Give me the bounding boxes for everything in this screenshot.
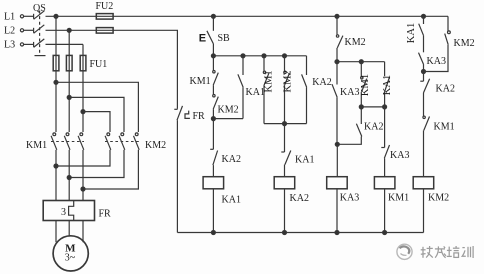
wire drop phase B: [68, 30, 70, 55]
contact KM1 NC right: [423, 116, 430, 177]
contact KA2 NO parallel: [302, 56, 307, 124]
wire KM1 coil to rail: [384, 189, 386, 233]
junction crossover A: [54, 80, 58, 84]
contact KM2 NO mid: [336, 16, 343, 61]
svg-text:KM1: KM1: [26, 140, 47, 151]
contact KA2 NO before KA3 coil: [337, 107, 362, 144]
contact KA1 NC before KA2 coil: [281, 124, 291, 177]
svg-text:KA1: KA1: [382, 75, 393, 95]
svg-text:KM2: KM2: [345, 37, 366, 48]
coil KM2: [413, 177, 434, 189]
wire phase C below FU1: [82, 71, 84, 132]
wire KM2 pole3 merge: [83, 150, 138, 189]
svg-text:KM2: KM2: [454, 38, 475, 49]
char pei: [448, 247, 450, 256]
terminal L2: [20, 29, 23, 32]
wire KM2 pole2 merge: [69, 150, 124, 178]
svg-text:KA3: KA3: [390, 150, 409, 161]
switch QS linkage dashed: [39, 11, 41, 56]
junction merge C: [81, 187, 85, 191]
char cheng: [435, 248, 445, 250]
wire KM2 pole1 merge: [56, 150, 110, 166]
coil KA2: [274, 177, 295, 189]
coil KA1: [203, 177, 224, 189]
svg-text:FU1: FU1: [90, 59, 108, 70]
svg-text:FR: FR: [193, 111, 206, 122]
contact KM2 NO parallel: [284, 56, 290, 124]
svg-text:KA3: KA3: [340, 192, 359, 203]
contact FR NC: [174, 106, 182, 233]
coil KM1: [374, 177, 395, 189]
junction rail KM1: [383, 231, 387, 235]
wire L1 to QS: [24, 15, 34, 17]
switch QS pole 1: [34, 11, 45, 19]
fuse FU1c: [80, 55, 86, 70]
wire crossover B to KM2 pole2: [69, 97, 124, 132]
svg-text:KA1: KA1: [222, 194, 241, 205]
svg-text:KA1: KA1: [406, 23, 417, 43]
watermark logo: [397, 244, 412, 259]
contactor KM1 pole3: [78, 133, 84, 150]
char xun: [462, 247, 464, 249]
wire drop phase C: [82, 44, 84, 55]
contact KA3 NO right: [419, 53, 424, 82]
junction right merge: [422, 70, 426, 74]
junction L1 drop: [54, 14, 58, 18]
contact KM2 NO right parallel: [424, 16, 451, 71]
wire L3 to QS: [24, 43, 34, 45]
junction mid node: [335, 60, 339, 64]
junction KA2 coil branch: [283, 122, 287, 126]
fuse FU1b: [66, 55, 72, 70]
svg-text:KM1: KM1: [434, 122, 455, 133]
junction main KA1 merge: [211, 117, 215, 121]
svg-text:FU2: FU2: [96, 1, 114, 12]
fuse FU2a: [96, 14, 113, 20]
char ji: [422, 247, 424, 258]
wire KM1 pole2 to FR: [68, 150, 70, 201]
contact KM1 NO main branch: [213, 56, 219, 94]
wire L3 after QS: [46, 43, 84, 45]
svg-text:KM1: KM1: [264, 70, 275, 92]
svg-text:L3: L3: [4, 40, 15, 51]
wire KM1 pole1 to FR: [55, 150, 57, 201]
wire L2 after QS: [46, 29, 97, 31]
svg-text:KM2: KM2: [218, 105, 239, 116]
svg-text:KA2: KA2: [364, 121, 383, 132]
contactor KM2 pole1: [105, 133, 111, 150]
fuse FU2b: [96, 28, 113, 33]
fuse FU1a: [53, 55, 59, 70]
svg-text:KM1: KM1: [360, 74, 371, 96]
svg-text:L1: L1: [4, 12, 15, 23]
watermark text: [421, 246, 473, 258]
contact KA2 NC before KA1 coil: [210, 119, 217, 177]
contact KA3 NC before KM1 coil: [381, 107, 389, 177]
svg-text:L2: L2: [4, 26, 15, 37]
wire FR to motor C: [82, 221, 84, 243]
junction group2 right: [383, 105, 387, 109]
contact KM1 NO parallel: [263, 56, 269, 124]
svg-text:KM1: KM1: [388, 192, 409, 203]
contactor KM1 linkage dashed: [51, 141, 84, 143]
junction crossover C: [81, 110, 85, 114]
svg-text:KA2: KA2: [222, 154, 241, 165]
contact KA1 NO mid: [385, 62, 390, 107]
junction merge B: [67, 176, 71, 180]
motor M: [53, 236, 88, 271]
junction rail KA1: [211, 231, 215, 235]
wire KA3 coil to rail: [336, 189, 338, 233]
junction group2 left: [359, 105, 363, 109]
wire L2 to FR branch: [113, 30, 177, 108]
coil KA3: [327, 177, 348, 189]
svg-text:KA2: KA2: [312, 77, 331, 88]
switch QS handle bar: [35, 55, 46, 57]
junction below SB: [211, 54, 215, 58]
svg-text:KA1: KA1: [295, 155, 314, 166]
contactor KM2 pole2: [119, 133, 125, 150]
thermal relay FR box: [43, 201, 94, 221]
wire FR to motor A: [55, 221, 57, 243]
wire join group1 bottom: [264, 123, 307, 125]
wire phase B below FU1: [68, 71, 70, 132]
svg-text:KA3: KA3: [427, 56, 446, 67]
wire to KA3 coil: [336, 144, 338, 176]
thermal paddle FR: [185, 111, 190, 119]
svg-text:KA1: KA1: [246, 87, 265, 98]
contactor KM2 pole3: [134, 133, 140, 150]
contactor KM1 pole2: [64, 133, 70, 150]
svg-text:KA2: KA2: [290, 193, 309, 204]
thermal relay FR element symbol: [69, 201, 74, 221]
contact KA3 NO mid: [332, 62, 337, 145]
contactor KM2 linkage dashed: [105, 141, 139, 143]
wire rail to SB: [212, 16, 214, 31]
svg-text:KM2: KM2: [282, 70, 293, 92]
wire node line group2: [337, 61, 385, 63]
wire L1 after QS: [46, 15, 97, 17]
wire L2 to QS: [24, 29, 34, 31]
junction merge A: [54, 164, 58, 168]
switch QS pole 2: [34, 25, 45, 34]
wire KA1 branch bottom merge: [213, 118, 243, 120]
wire KA1 coil to rail: [212, 189, 214, 233]
svg-text:3: 3: [61, 207, 66, 218]
junction KM1 mid branch top: [359, 60, 363, 64]
contactor KM1 pole1: [51, 133, 57, 150]
svg-text:FR: FR: [99, 209, 112, 220]
junction rail KA3: [335, 231, 339, 235]
svg-text:KM2: KM2: [428, 192, 449, 203]
junction crossover B: [67, 95, 71, 99]
button SB: [207, 31, 214, 56]
terminal L1: [20, 15, 23, 18]
contact KA1 NO seal branch: [238, 56, 243, 119]
svg-text:SB: SB: [218, 33, 231, 44]
junction rail KA2: [283, 231, 287, 235]
junction KM2 mid branch: [335, 14, 339, 18]
wire node line group1: [213, 55, 306, 57]
svg-text:KA2: KA2: [436, 84, 455, 95]
junction right branch top: [422, 14, 426, 18]
svg-text:KM1: KM1: [190, 76, 211, 87]
wire crossover C to KM2 pole1: [83, 112, 110, 132]
wire join group2: [361, 106, 384, 108]
contact KM1 NO mid: [361, 62, 367, 107]
wire KM2 coil to rail: [423, 189, 425, 233]
junction SB branch: [211, 14, 215, 18]
svg-text:E: E: [199, 33, 206, 45]
svg-text:KM2: KM2: [145, 140, 166, 151]
wire crossover A to KM2 pole3: [56, 82, 138, 132]
junction L2 drop: [67, 28, 71, 32]
wire FR to motor B: [68, 221, 70, 236]
wire KA2 coil to rail: [284, 189, 286, 233]
junction KM2 branch top: [283, 54, 287, 58]
junction KA3 coil branch: [335, 142, 339, 146]
terminal L3: [20, 43, 23, 46]
switch QS pole 3: [34, 39, 45, 48]
wire KM1 pole3 to FR: [82, 150, 84, 201]
wire drop phase A: [55, 16, 57, 55]
wire bottom rail: [177, 232, 423, 234]
junction KA1 branch top: [241, 54, 245, 58]
svg-text:KA3: KA3: [340, 87, 359, 98]
contact KM2 NO main branch: [213, 95, 219, 119]
contact KA2 NC right: [420, 79, 429, 116]
wire phase A below FU1: [55, 71, 57, 132]
contact KA1 NO right: [419, 16, 424, 52]
wire top rail L1: [113, 15, 448, 17]
svg-text:3~: 3~: [65, 253, 76, 264]
junction KM1 branch top: [262, 54, 266, 58]
